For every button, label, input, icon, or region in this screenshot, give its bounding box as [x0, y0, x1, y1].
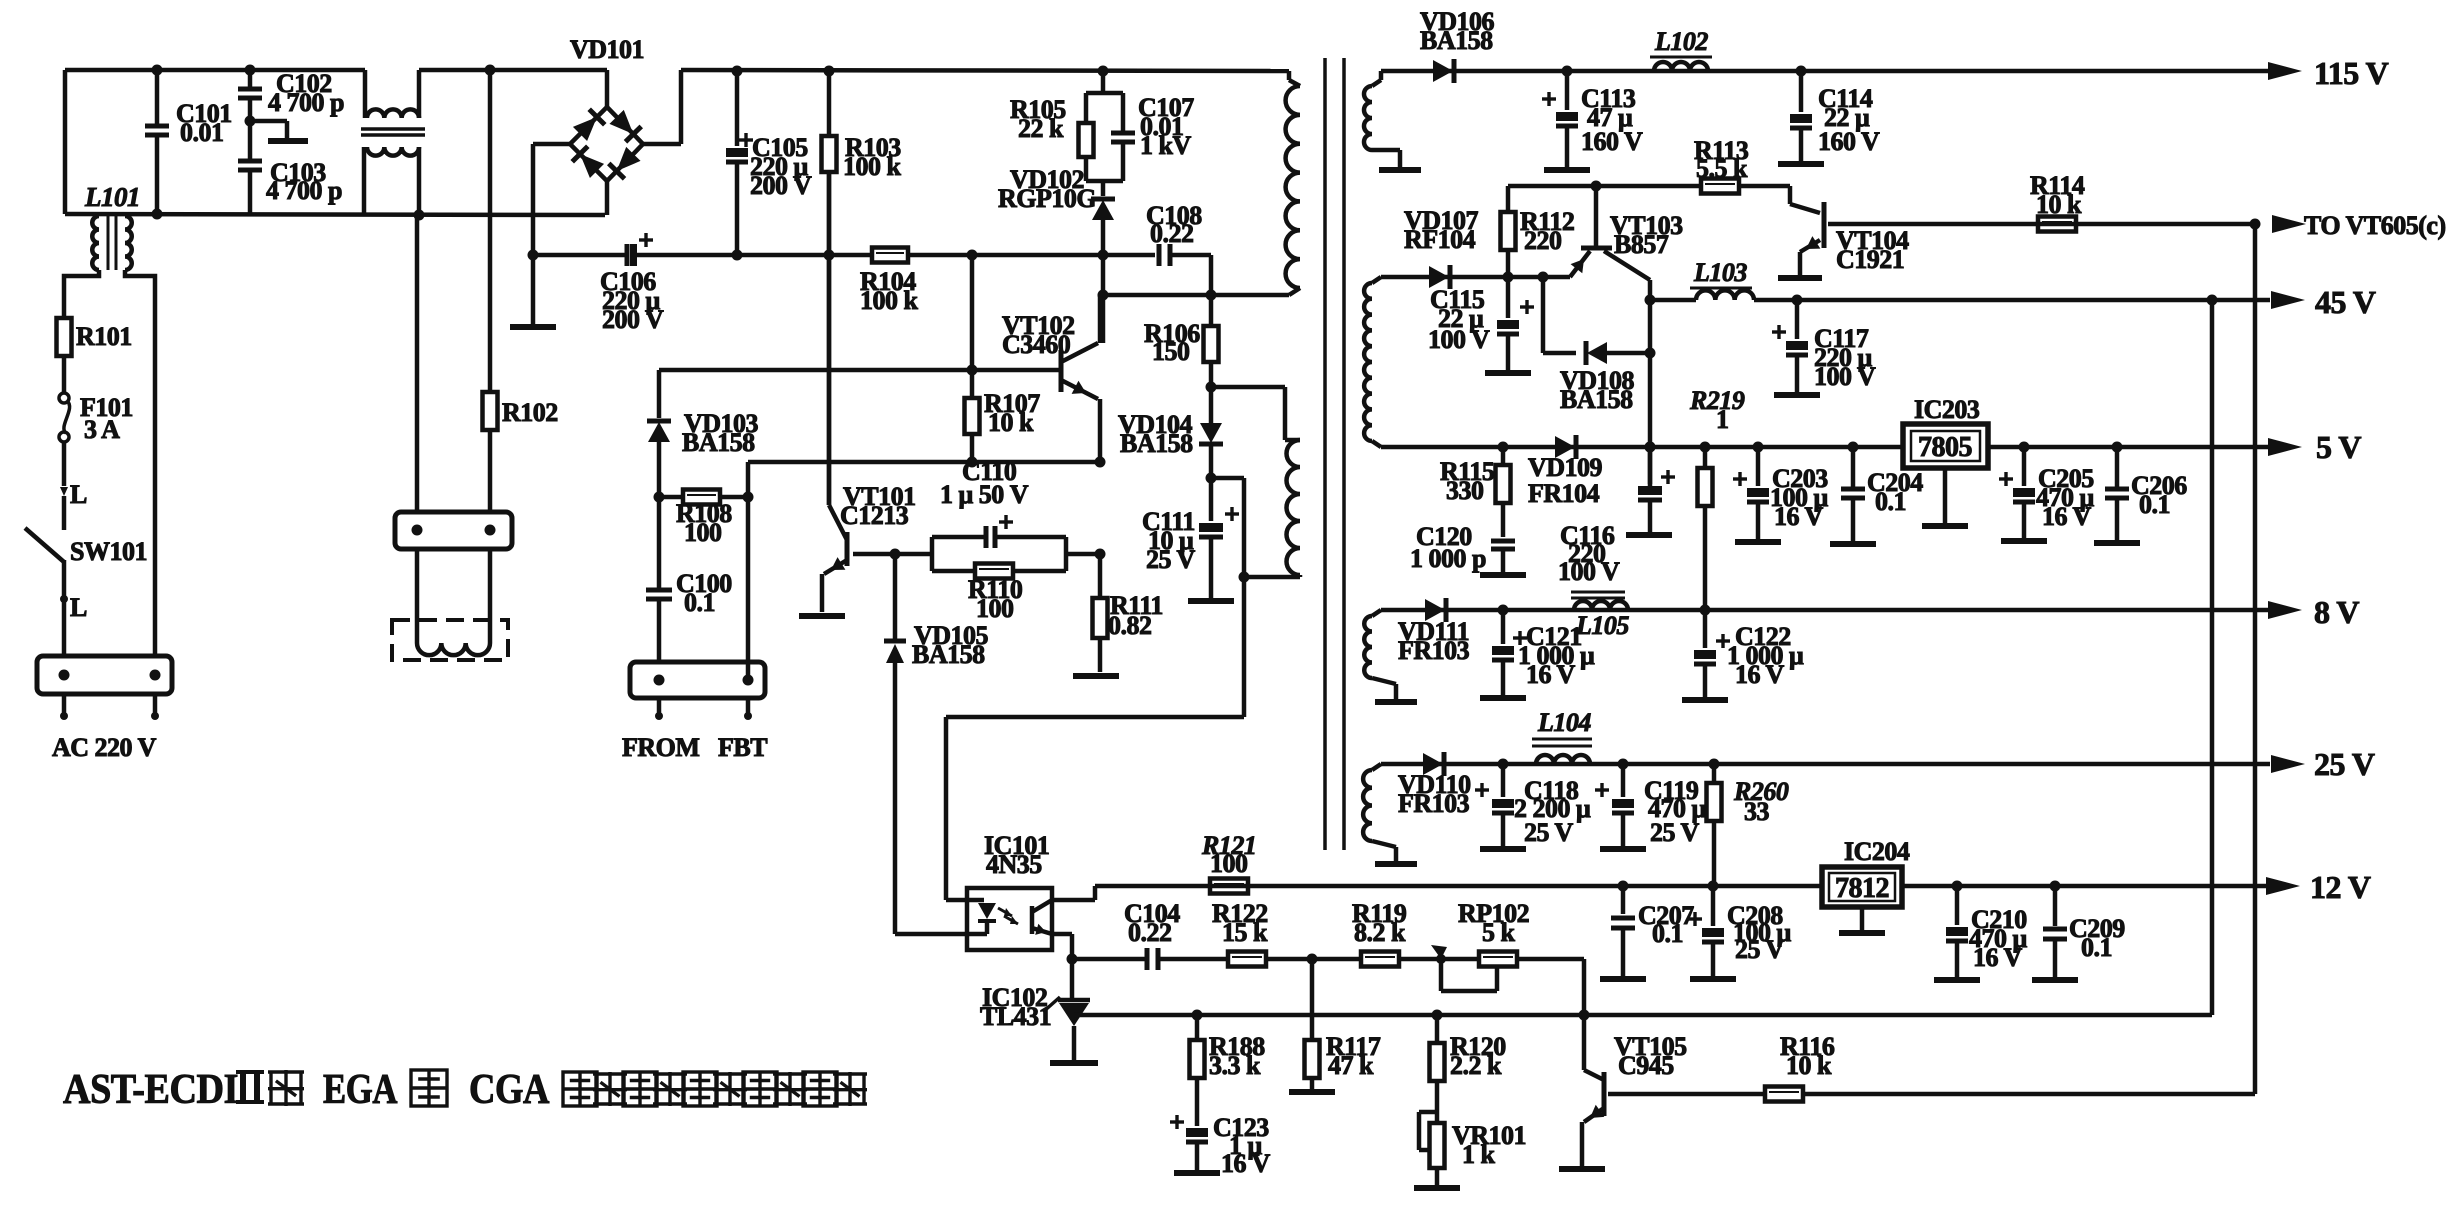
wire 25V rail [1381, 759, 2270, 770]
svg-text:220: 220 [1524, 226, 1562, 255]
ground IC204 [1839, 930, 1885, 936]
svg-text:200 V: 200 V [602, 305, 664, 334]
svg-text:4 700 p: 4 700 p [268, 88, 344, 117]
svg-text:TO VT605(c): TO VT605(c) [2304, 211, 2446, 240]
secondary winding S2 (45V/5V) [1364, 277, 1381, 447]
line filter transformer [361, 70, 425, 215]
svg-text:25 V: 25 V [1146, 545, 1196, 574]
svg-text:RGP10G: RGP10G [998, 184, 1096, 213]
transistor VT103 B857 [1570, 186, 1683, 280]
wire IC203 gnd stem [1943, 468, 1948, 524]
svg-text:22 k: 22 k [1018, 114, 1064, 143]
caption title [63, 1067, 867, 1113]
svg-text:16 V: 16 V [2042, 502, 2092, 531]
capacitor C205 [1999, 447, 2095, 539]
svg-text:C1921: C1921 [1836, 245, 1904, 274]
resistor R105 [1010, 71, 1123, 181]
svg-text:25 V: 25 V [1735, 935, 1785, 964]
resistor R120 [1430, 1015, 1507, 1123]
resistor R116 [1765, 1032, 2255, 1102]
ground C203 [1735, 539, 1781, 545]
svg-text:B857: B857 [1614, 230, 1669, 259]
svg-text:0.22: 0.22 [1150, 219, 1194, 248]
switch SW101 [25, 528, 147, 603]
svg-text:16 V: 16 V [1735, 660, 1785, 689]
svg-text:16 V: 16 V [1973, 943, 2023, 972]
svg-text:L: L [70, 480, 87, 509]
node L upper [60, 480, 87, 530]
wire degauss left drop [415, 215, 420, 512]
resistor R117 [1305, 959, 1381, 1090]
output TO VT605(c) [2250, 211, 2446, 240]
diode VD108 BA158 [1543, 341, 1650, 414]
capacitor C122 [1694, 610, 1804, 698]
wire to feedback winding [1244, 575, 1300, 580]
ground C114 [1778, 161, 1824, 167]
wire 115V rail [1381, 69, 2268, 74]
ground C119 [1600, 846, 1646, 852]
svg-text:100: 100 [976, 594, 1014, 623]
svg-text:33: 33 [1744, 797, 1770, 826]
capacitor C107 [1111, 93, 1194, 181]
wire VT102 base line [659, 368, 1061, 373]
transistor VT105 C945 [1582, 1032, 1765, 1166]
svg-text:IC204: IC204 [1844, 837, 1910, 866]
wire 12V rail left [1095, 881, 1822, 892]
svg-text:RF104: RF104 [1404, 225, 1476, 254]
wire 45V winding top line [1381, 275, 1570, 280]
resistor R121 [1201, 831, 1256, 894]
svg-text:150: 150 [1152, 337, 1190, 366]
wire R113 line [1508, 181, 1701, 192]
diode VD111 FR103 [1398, 598, 1470, 665]
ground VR101 [1414, 1185, 1460, 1191]
wire bridge minus drop [528, 144, 571, 325]
resistor R102 (degauss PTC) [483, 392, 558, 512]
svg-text:3 A: 3 A [84, 415, 120, 444]
svg-text:4N35: 4N35 [986, 850, 1042, 879]
svg-text:BA158: BA158 [1420, 26, 1493, 55]
svg-text:L101: L101 [84, 182, 140, 212]
svg-text:330: 330 [1446, 476, 1484, 505]
capacitor C103 [238, 121, 342, 214]
resistor R115 [1440, 447, 1511, 537]
capacitor C114 [1790, 66, 1880, 162]
svg-text:L: L [70, 593, 87, 622]
resistor R260 [1707, 764, 1789, 886]
output 8 V [2268, 594, 2359, 630]
svg-text:10 k: 10 k [1786, 1051, 1832, 1080]
connector degauss plug [395, 512, 512, 622]
capacitor C206 [2105, 447, 2187, 541]
capacitor C111 [1142, 478, 1239, 598]
svg-text:IC203: IC203 [1914, 395, 1980, 424]
wire RP102 to VT105 [1582, 959, 1587, 1070]
wire IC204 gnd stem [1860, 907, 1865, 931]
capacitor C209 [2043, 886, 2125, 978]
transformer core [1325, 58, 1344, 850]
svg-text:0.01: 0.01 [180, 118, 224, 147]
wire collector to primary [1102, 290, 1289, 301]
capacitor C123 [1170, 1113, 1271, 1178]
svg-text:10 k: 10 k [2036, 190, 2082, 219]
capacitor C118 [1475, 764, 1591, 847]
svg-text:100 k: 100 k [860, 286, 919, 315]
fuse F101 3A [59, 393, 133, 486]
diode VD110 FR103 [1398, 752, 1471, 818]
wire 8V rail [1381, 605, 2270, 616]
svg-text:FR104: FR104 [1528, 479, 1600, 508]
ground C210 [1934, 977, 1980, 983]
diode VD104 BA158 [1118, 382, 1223, 484]
svg-text:AST-ECDI: AST-ECDI [63, 1067, 238, 1113]
wire IC101 collector out [1052, 886, 1095, 900]
resistor R112 [1501, 186, 1575, 283]
svg-text:0.1: 0.1 [1652, 919, 1683, 948]
svg-text:BA158: BA158 [912, 640, 985, 669]
capacitor C203 [1733, 447, 1829, 540]
svg-text:7805: 7805 [1918, 432, 1972, 463]
wire IC101 emitter out [1052, 934, 1078, 965]
diode VD105 BA158 [884, 554, 989, 934]
wire 5V rail right [1988, 442, 2270, 453]
capacitor C119 [1595, 764, 1707, 847]
ground VT104 emitter [1778, 275, 1822, 281]
ground C204 [1830, 541, 1876, 547]
wire top AC rail left [65, 68, 365, 73]
capacitor C101 [145, 65, 232, 220]
resistor R119 [1352, 899, 1479, 967]
wire left AC leg upper [63, 70, 68, 214]
capacitor C100 [646, 569, 732, 662]
svg-text:CGA: CGA [469, 1067, 550, 1113]
ground IC102 [1050, 1060, 1098, 1066]
svg-text:FBT: FBT [718, 733, 767, 762]
ground C208 [1690, 976, 1736, 982]
svg-text:25 V: 25 V [2314, 746, 2375, 782]
inductor L104 [1532, 708, 1592, 764]
svg-text:3.3 k: 3.3 k [1209, 1051, 1261, 1080]
resistor R110 [932, 564, 1066, 624]
ground C205 [2001, 538, 2047, 544]
ground R117 [1289, 1089, 1335, 1095]
svg-text:L103: L103 [1693, 258, 1747, 287]
ground IC203 [1922, 523, 1968, 529]
resistor R108 [659, 490, 748, 548]
svg-text:100 V: 100 V [1814, 362, 1876, 391]
svg-text:L104: L104 [1537, 708, 1591, 737]
wire 5V rail left [1381, 442, 1903, 453]
resistor R107 [965, 255, 1041, 462]
ground C122 [1682, 697, 1728, 703]
wire 45V sense vertical [2210, 300, 2215, 1015]
ground bridge minus [510, 324, 556, 330]
transistor VT102 C3460 [1002, 295, 1100, 462]
secondary winding S3 (8V) [1364, 610, 1396, 700]
svg-text:25 V: 25 V [1524, 818, 1574, 847]
svg-text:0.1: 0.1 [2139, 490, 2170, 519]
svg-text:0.1: 0.1 [2081, 933, 2112, 962]
diode VD106 BA158 [1420, 7, 1495, 83]
svg-text:FROM: FROM [622, 733, 699, 762]
capacitor C207 [1611, 886, 1694, 977]
ground C113 [1544, 167, 1590, 173]
wire bridge plus riser [643, 70, 681, 144]
svg-text:200 V: 200 V [750, 171, 812, 200]
wire VT101 base [853, 549, 932, 560]
ground S3 [1375, 699, 1417, 705]
svg-text:VD109: VD109 [1528, 453, 1603, 482]
svg-text:45 V: 45 V [2315, 284, 2376, 320]
resistor R111 [1093, 554, 1163, 672]
svg-text:5 k: 5 k [1482, 918, 1516, 947]
wire emitter/feedback line [748, 457, 1106, 468]
wire sense rail [1074, 1010, 2212, 1021]
wire feedback node drop [1211, 478, 1250, 717]
capacitor C105 [726, 71, 812, 255]
resistor R104 [860, 248, 1155, 316]
svg-text:100 V: 100 V [1428, 325, 1490, 354]
secondary winding S4 (25V) [1363, 764, 1396, 862]
wire AC top rail to bridge [419, 65, 607, 76]
ground S1 [1379, 167, 1421, 173]
connector AC 220 V input [37, 656, 172, 762]
resistor R188 [1190, 1015, 1266, 1126]
capacitor C117 [1772, 300, 1876, 392]
transformer primary winding [1286, 71, 1300, 295]
ground C121 [1480, 695, 1526, 701]
svg-text:L102: L102 [1654, 27, 1708, 56]
output 25 V [2271, 746, 2375, 782]
resistor R122 [1212, 899, 1361, 967]
svg-text:100 V: 100 V [1558, 557, 1620, 586]
transistor VT104 C1921 [1800, 202, 2255, 275]
resistor R106 [1144, 295, 1285, 387]
ground C118 [1480, 846, 1526, 852]
wire bottom AC rail [65, 214, 605, 215]
wire 45V rail [1754, 295, 2270, 306]
resistor R219 [1689, 386, 1745, 610]
svg-text:1 μ 50 V: 1 μ 50 V [940, 480, 1029, 509]
svg-text:100 k: 100 k [843, 152, 902, 181]
svg-text:16 V: 16 V [1221, 1149, 1271, 1178]
capacitor C115 [1428, 277, 1534, 371]
svg-text:47 k: 47 k [1328, 1051, 1374, 1080]
capacitor C116 [1558, 447, 1675, 586]
IC IC204 7812 [1822, 837, 1910, 907]
secondary winding S1 (115V) [1364, 71, 1400, 168]
ground S4 [1375, 861, 1417, 867]
svg-text:160 V: 160 V [1581, 127, 1643, 156]
ground VT105 emitter [1559, 1166, 1605, 1172]
ground VT101 emitter [799, 613, 845, 619]
svg-text:12 V: 12 V [2310, 869, 2371, 905]
wire +310V top rail [681, 66, 1289, 77]
svg-text:SW101: SW101 [70, 537, 147, 566]
svg-text:R101: R101 [76, 322, 132, 351]
svg-text:4 700 p: 4 700 p [266, 176, 342, 205]
inductor L105 [1571, 592, 1629, 640]
capacitor C121 [1492, 610, 1595, 696]
capacitor C113 [1542, 66, 1643, 168]
svg-text:AC 220 V: AC 220 V [52, 733, 157, 762]
svg-text:5 V: 5 V [2316, 429, 2361, 465]
inductor L102 [1650, 27, 1712, 71]
IC IC203 7805 [1903, 395, 1988, 468]
capacitor C210 [1946, 886, 2028, 978]
output 45 V [2271, 284, 2376, 320]
svg-text:0.82: 0.82 [1108, 611, 1152, 640]
capacitor C108 [1146, 201, 1211, 295]
ground C115 [1485, 370, 1531, 376]
svg-text:BA158: BA158 [1560, 385, 1633, 414]
ground C120 [1480, 572, 1526, 578]
wire VD108 left drop [1538, 272, 1549, 354]
svg-text:7812: 7812 [1835, 873, 1889, 904]
resistor R114 [2038, 217, 2076, 232]
diode VD109 FR104 [1528, 435, 1603, 508]
capacitor C110 [932, 457, 1066, 548]
capacitor C104 [1072, 899, 1228, 970]
svg-text:1 kV: 1 kV [1140, 131, 1191, 160]
wire R102 drop [488, 70, 493, 392]
node degauss tap [414, 210, 425, 221]
ground C116 [1626, 532, 1672, 538]
svg-text:0.1: 0.1 [1875, 487, 1906, 516]
output 115 V [2268, 55, 2389, 91]
ground C206 [2094, 540, 2140, 546]
resistor R101 [57, 318, 132, 393]
ground C123 [1174, 1170, 1220, 1176]
resistor R103 [822, 71, 902, 505]
svg-text:5.5 k: 5.5 k [1696, 154, 1748, 183]
svg-text:TL431: TL431 [980, 1002, 1051, 1031]
wire to FBT pin [743, 462, 754, 680]
capacitor C106 [533, 233, 978, 334]
svg-text:8 V: 8 V [2314, 594, 2359, 630]
svg-text:0.1: 0.1 [684, 588, 715, 617]
svg-text:VD101: VD101 [570, 35, 644, 64]
diode VD107 RF104 [1404, 206, 1479, 289]
ground C207 [1600, 976, 1646, 982]
svg-text:FR103: FR103 [1398, 789, 1470, 818]
wire R113 to VT104 base [1790, 186, 1820, 213]
svg-text:BA158: BA158 [682, 428, 755, 457]
svg-text:15 k: 15 k [1222, 918, 1268, 947]
svg-text:100: 100 [1210, 849, 1248, 878]
wire VT605 feedback vertical [2253, 224, 2258, 1094]
transistor VT101 C1213 [822, 172, 916, 612]
svg-text:0.22: 0.22 [1128, 918, 1172, 947]
svg-text:160 V: 160 V [1818, 127, 1880, 156]
svg-text:25 V: 25 V [1650, 818, 1700, 847]
svg-text:FR103: FR103 [1398, 636, 1470, 665]
ground C111 [1188, 598, 1234, 604]
svg-text:8.2 k: 8.2 k [1354, 918, 1406, 947]
svg-text:C945: C945 [1618, 1051, 1674, 1080]
svg-text:EGA: EGA [323, 1067, 398, 1113]
svg-text:10 k: 10 k [988, 408, 1034, 437]
capacitor C102 [238, 65, 344, 127]
diode VD103 BA158 [647, 370, 759, 588]
node C110/R110 frame [932, 537, 1106, 571]
svg-text:100: 100 [684, 518, 722, 547]
wire feedback to IC101 [946, 717, 1244, 900]
svg-text:1: 1 [1716, 405, 1729, 434]
svg-text:115 V: 115 V [2314, 55, 2389, 91]
svg-text:1 k: 1 k [1462, 1140, 1496, 1169]
svg-text:16 V: 16 V [1774, 502, 1824, 531]
svg-text:C1213: C1213 [840, 501, 909, 530]
ground C117 [1774, 392, 1820, 398]
capacitor C120 [1410, 522, 1515, 573]
optocoupler IC101 4N35 [967, 831, 1052, 950]
transformer feedback winding [1285, 387, 1300, 577]
node L lower [64, 593, 87, 656]
output 5 V [2268, 429, 2361, 465]
svg-text:2.2 k: 2.2 k [1450, 1051, 1502, 1080]
degaussing coil [392, 620, 508, 660]
ground C209 [2032, 977, 2078, 983]
chassis ground tap C102/C103 [250, 121, 308, 141]
svg-text:BA158: BA158 [1120, 429, 1193, 458]
bridge rectifier VD101 [570, 35, 644, 215]
svg-text:1 000 p: 1 000 p [1410, 544, 1486, 573]
svg-text:R102: R102 [502, 398, 558, 427]
wire VT103 collector drop [1645, 280, 1656, 486]
ground R111 [1073, 673, 1119, 679]
potentiometer VR101 [1419, 1112, 1526, 1186]
output 12 V [2266, 869, 2371, 905]
svg-text:L105: L105 [1575, 611, 1629, 640]
resistor R113 [1694, 136, 1790, 194]
svg-text:16 V: 16 V [1526, 660, 1576, 689]
capacitor C204 [1841, 447, 1923, 542]
common-mode choke L101 [64, 182, 155, 656]
capacitor C208 [1688, 886, 1792, 977]
inductor L103 [1650, 258, 1754, 300]
shunt regulator IC102 TL431 [980, 959, 1090, 1060]
diode VD102 RGP10G [998, 165, 1115, 343]
connector FROM FBT [622, 662, 767, 762]
wire 12V rail right [1902, 881, 2268, 892]
potentiometer RP102 [1431, 899, 1584, 991]
label R114 [2030, 171, 2085, 219]
